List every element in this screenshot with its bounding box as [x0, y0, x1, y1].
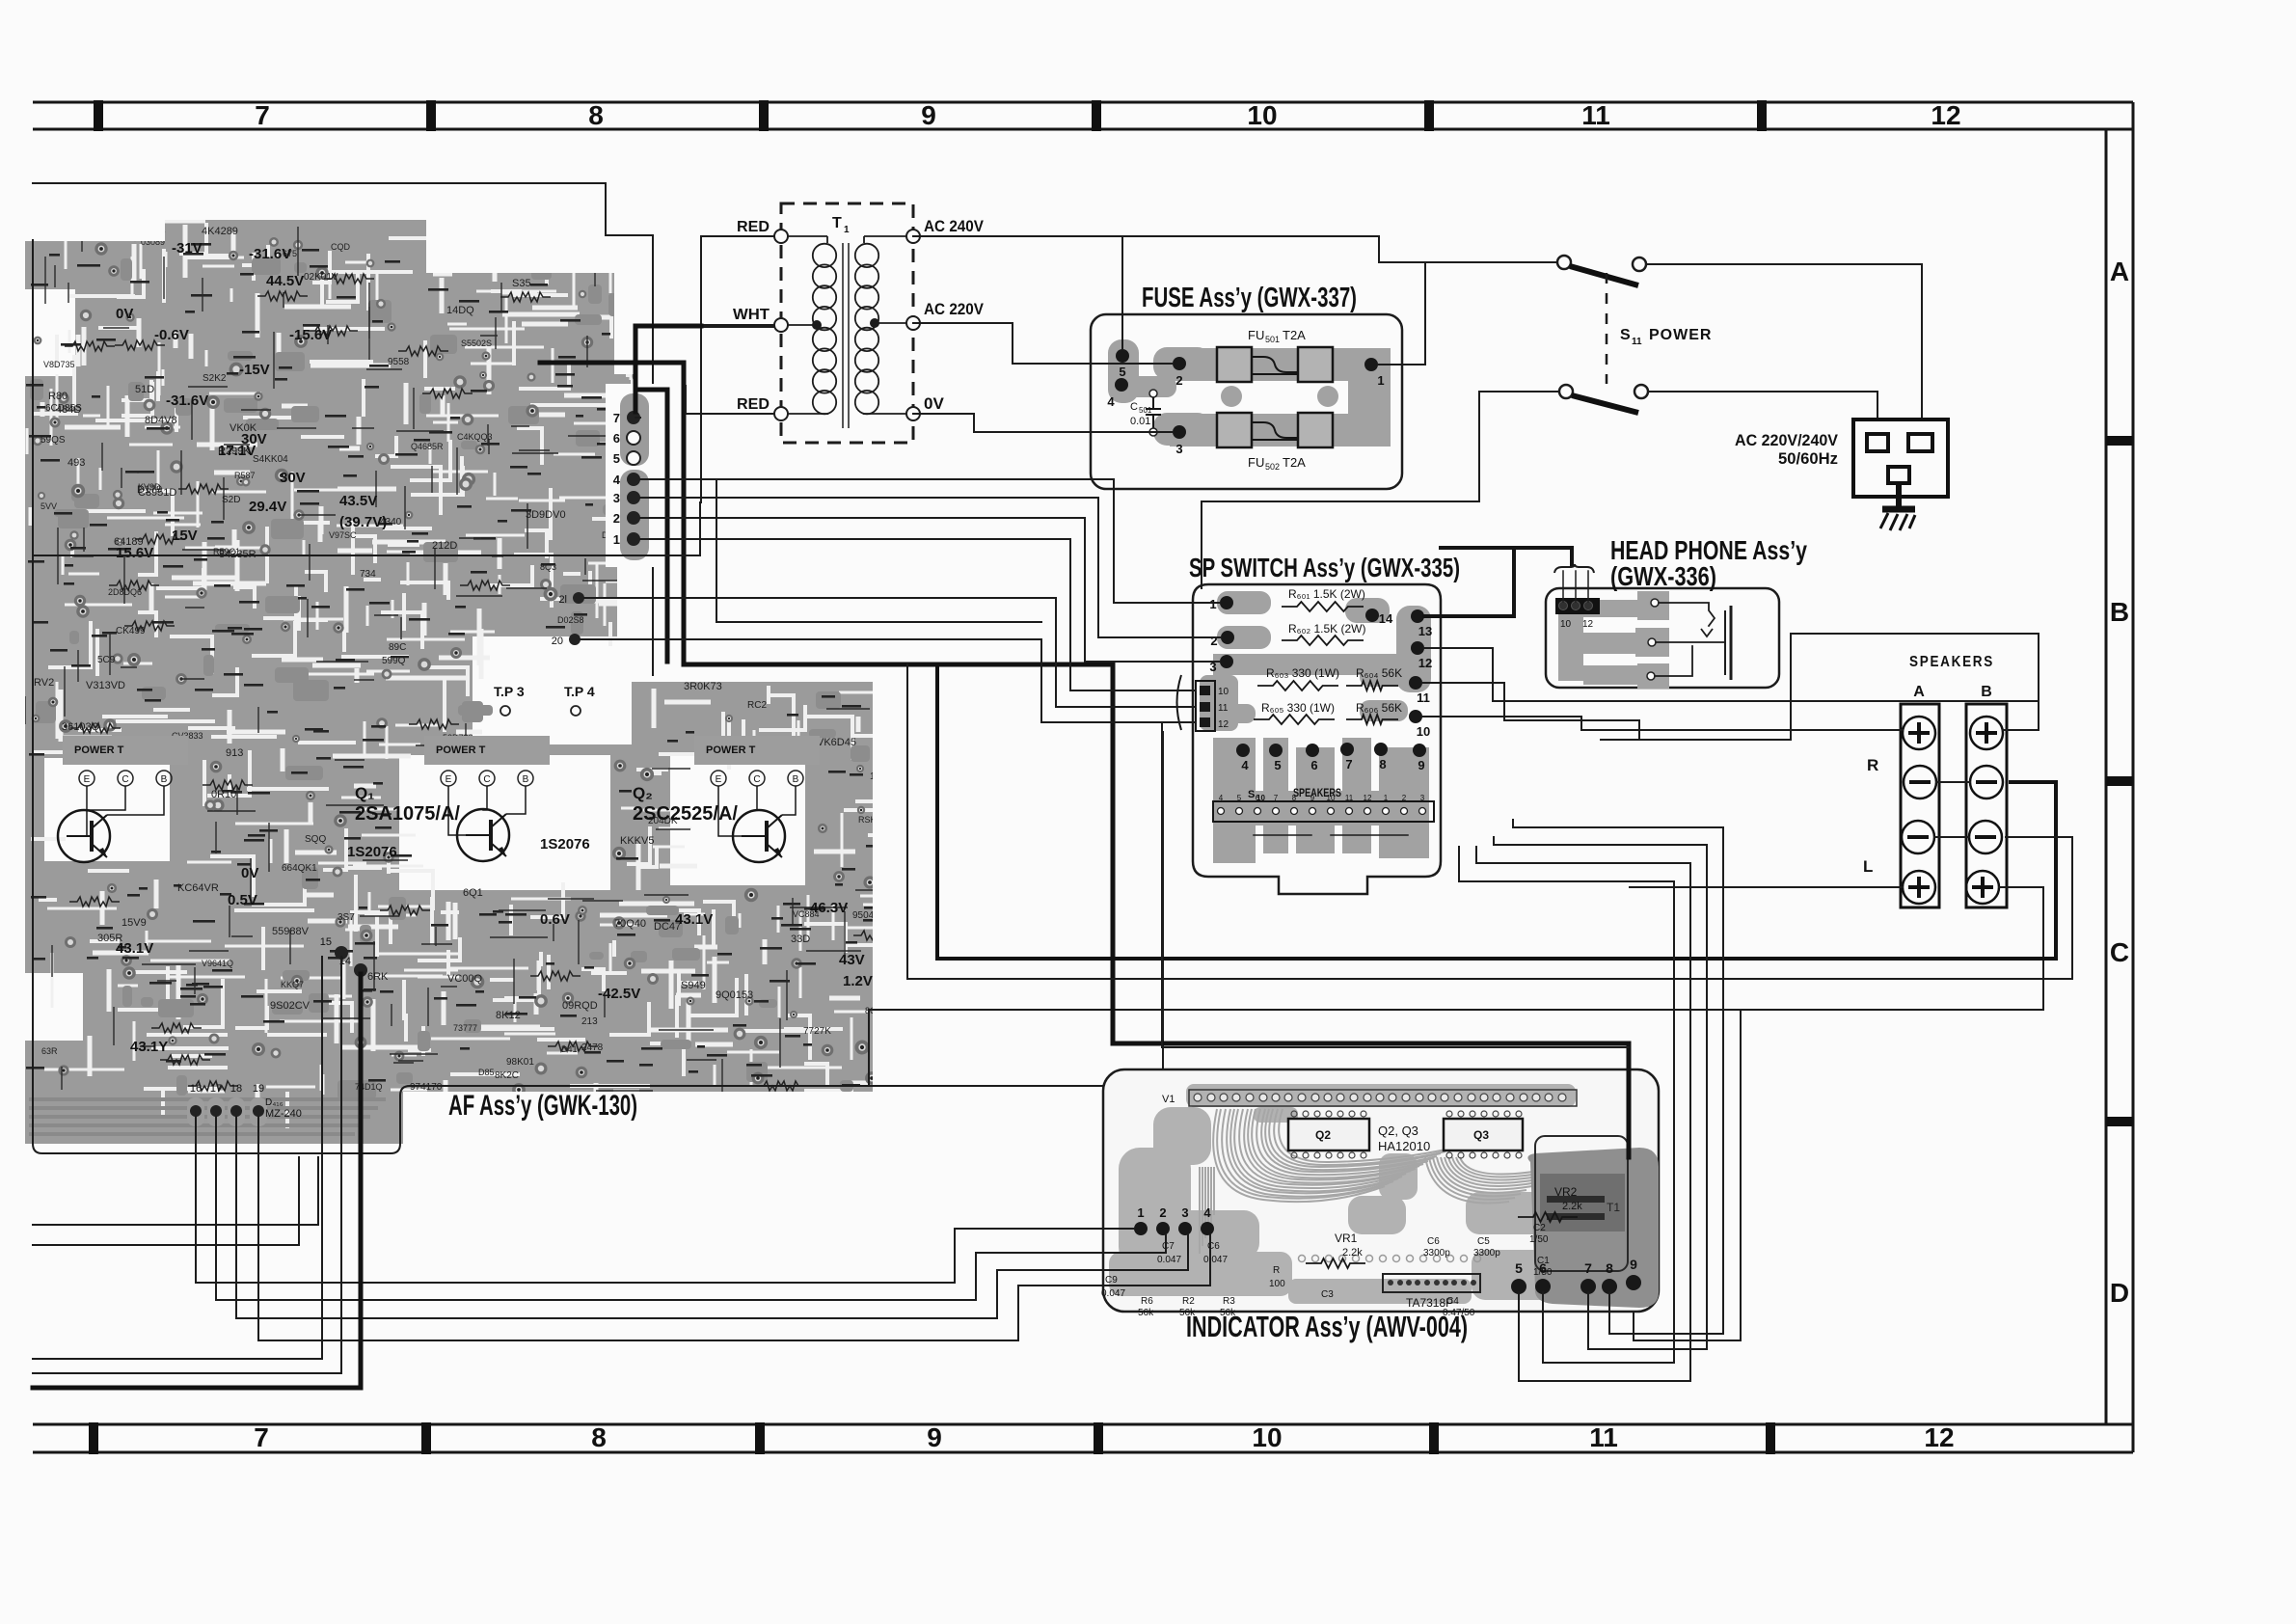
svg-text:-0.6V: -0.6V	[154, 327, 189, 343]
wire RED bottom	[686, 386, 774, 414]
svg-text:43.1V: 43.1V	[675, 911, 713, 928]
wire RED-top to PCB	[701, 326, 774, 328]
svg-text:CQD: CQD	[331, 242, 351, 252]
svg-text:FU: FU	[1248, 328, 1264, 342]
svg-text:6RK: 6RK	[367, 971, 389, 983]
node SP bracket pins 10/11/12	[1177, 675, 1229, 731]
svg-text:T2A: T2A	[1283, 328, 1306, 342]
svg-text:RV2: RV2	[34, 677, 54, 689]
svg-text:2: 2	[613, 511, 620, 526]
svg-text:2: 2	[1175, 373, 1182, 388]
svg-text:59QS: 59QS	[41, 435, 66, 446]
wire pin1 to SP bracket 10	[640, 539, 1196, 690]
resistor R604	[1346, 666, 1402, 690]
svg-text:POWER T: POWER T	[706, 744, 756, 756]
svg-text:7: 7	[254, 1422, 269, 1452]
svg-text:2: 2	[1159, 1205, 1166, 1220]
svg-text:-31V: -31V	[172, 240, 203, 257]
wire WHT thick to pin7	[635, 326, 701, 412]
node fuse pin 3	[1173, 425, 1186, 439]
FUSE assembly box (GWX-337)	[1091, 314, 1402, 489]
svg-text:43.1V: 43.1V	[116, 940, 153, 957]
wire SP to indicator pin5	[1476, 847, 1690, 1381]
svg-text:18: 18	[230, 1083, 242, 1095]
resistor R602	[1282, 622, 1366, 645]
fuse FU501	[1217, 328, 1333, 382]
resistor R601	[1282, 587, 1365, 611]
svg-text:1: 1	[844, 225, 850, 235]
svg-text:599Q: 599Q	[382, 656, 406, 666]
svg-text:6: 6	[1310, 758, 1317, 772]
svg-text:1/50: 1/50	[1529, 1234, 1549, 1245]
wire thick main bus	[540, 363, 1629, 1157]
IC Q3	[1444, 1111, 1523, 1158]
svg-text:R: R	[1867, 756, 1878, 774]
wire speakers top feed B+	[1791, 634, 2039, 730]
svg-text:Q₂: Q₂	[633, 784, 653, 802]
svg-text:3: 3	[613, 491, 620, 505]
svg-text:B: B	[161, 774, 168, 785]
switch S11 POWER lower pole	[1559, 385, 1648, 413]
svg-text:Q3: Q3	[1473, 1128, 1489, 1142]
svg-text:FUSE Ass’y (GWX-337): FUSE Ass’y (GWX-337)	[1142, 283, 1357, 313]
wire thick bottom-left	[33, 974, 361, 1388]
wire down to SP switch	[1201, 501, 1202, 588]
svg-text:C: C	[753, 774, 760, 785]
wire AF18 to indicator pin3	[236, 1117, 1188, 1318]
node fuse pin 4	[1115, 378, 1128, 392]
IC TA7318P	[1383, 1274, 1480, 1310]
wire frame step top-left	[33, 183, 653, 675]
svg-text:C4KQQ3: C4KQQ3	[457, 432, 493, 442]
svg-text:33D: 33D	[791, 934, 810, 945]
node SP switch pins	[1209, 596, 1432, 772]
svg-text:R₆₀₆ 56K: R₆₀₆ 56K	[1356, 701, 1402, 715]
svg-text:63R: 63R	[41, 1046, 58, 1056]
svg-text:2.2k: 2.2k	[1562, 1201, 1582, 1212]
node fuse pin 2	[1173, 357, 1186, 370]
svg-text:V313VD: V313VD	[86, 680, 125, 691]
svg-text:501: 501	[1265, 335, 1280, 344]
wire WHT lead	[701, 324, 774, 326]
wire AF19 to indicator pin4	[258, 1117, 1210, 1340]
svg-text:S949: S949	[681, 980, 706, 991]
svg-text:Q2: Q2	[1315, 1128, 1331, 1142]
svg-text:55988V: 55988V	[272, 926, 310, 937]
svg-text:R587: R587	[234, 471, 256, 480]
svg-text:6Q1: 6Q1	[463, 887, 483, 899]
SP switch PCB traces	[1200, 591, 1431, 863]
wire SP pin12 right	[1424, 648, 2039, 701]
svg-text:C7: C7	[1162, 1241, 1175, 1252]
svg-text:8: 8	[1606, 1260, 1613, 1276]
svg-text:89C: 89C	[389, 642, 406, 653]
svg-text:12: 12	[1418, 656, 1432, 670]
svg-text:43.1Y: 43.1Y	[130, 1039, 168, 1055]
wire 0V to fuse pin3	[913, 414, 1153, 432]
svg-text:6: 6	[1256, 794, 1260, 802]
svg-text:3S7: 3S7	[338, 912, 355, 923]
svg-text:6: 6	[1539, 1260, 1547, 1276]
svg-text:9: 9	[921, 100, 936, 130]
svg-text:S2D: S2D	[222, 495, 240, 505]
svg-text:E: E	[716, 774, 722, 785]
svg-text:2D8DQ6: 2D8DQ6	[108, 587, 142, 597]
svg-text:213: 213	[581, 1016, 598, 1027]
svg-text:V9641Q: V9641Q	[202, 959, 233, 968]
svg-text:8: 8	[588, 100, 604, 130]
wire SP to indicator pin6	[1459, 847, 1674, 1363]
wire into A R+	[1581, 729, 1903, 731]
svg-text:0.47/50: 0.47/50	[1443, 1308, 1475, 1318]
svg-text:2l: 2l	[558, 594, 567, 606]
svg-text:8: 8	[591, 1422, 607, 1452]
svg-text:12: 12	[1931, 100, 1960, 130]
svg-text:3D9DV0: 3D9DV0	[526, 509, 566, 521]
wire bottom-left L3	[33, 957, 322, 1359]
svg-text:R₆₀₂ 1.5K (2W): R₆₀₂ 1.5K (2W)	[1288, 622, 1366, 636]
AC 220V/240V mains plug	[1853, 420, 1948, 497]
svg-text:C: C	[2110, 937, 2129, 967]
terminal speaker B R-	[1970, 766, 2003, 798]
svg-text:11: 11	[1589, 1422, 1618, 1452]
svg-text:98K01: 98K01	[506, 1057, 534, 1068]
resistor VR1 body	[1306, 1259, 1365, 1268]
svg-text:VK6D45: VK6D45	[817, 737, 856, 748]
svg-text:2SA1075/A/: 2SA1075/A/	[355, 803, 460, 825]
svg-text:8Q3: 8Q3	[540, 562, 556, 572]
wire AF17 to indicator pin2	[216, 1117, 1166, 1300]
svg-text:5: 5	[1237, 794, 1242, 802]
svg-text:0.01: 0.01	[1130, 416, 1150, 427]
capacitor C501	[1130, 390, 1161, 436]
svg-text:3300p: 3300p	[1423, 1248, 1450, 1259]
wire B L+ to indicator pin9	[1634, 887, 2043, 1340]
svg-text:16: 16	[190, 1083, 202, 1095]
svg-text:S: S	[1248, 789, 1255, 800]
svg-text:V8D735: V8D735	[43, 360, 75, 369]
terminal speaker B L-	[1969, 821, 2002, 853]
svg-text:6CD85S: 6CD85S	[45, 403, 82, 414]
svg-text:8K12: 8K12	[496, 1010, 521, 1021]
svg-text:493: 493	[68, 457, 85, 469]
node AF connector pins 7..1	[552, 411, 640, 647]
HEAD PHONE assembly box (GWX-336)	[1546, 588, 1779, 688]
svg-text:10: 10	[1560, 619, 1572, 630]
svg-text:4: 4	[1219, 794, 1224, 802]
svg-text:73777: 73777	[453, 1023, 477, 1033]
svg-text:POWER: POWER	[1649, 327, 1712, 343]
node indicator pins 5-9	[1511, 1257, 1641, 1294]
svg-text:KKKV5: KKKV5	[620, 835, 654, 847]
svg-text:0.047: 0.047	[1203, 1255, 1228, 1265]
headphone PCB traces	[1558, 591, 1669, 689]
svg-text:14DQ: 14DQ	[446, 305, 474, 316]
resistor R606	[1346, 701, 1402, 724]
wire to lower pole left	[1479, 391, 1559, 392]
wire lower pole to plug left prong	[1648, 392, 1877, 436]
svg-text:Q2, Q3: Q2, Q3	[1378, 1123, 1418, 1138]
svg-text:B: B	[793, 774, 799, 785]
svg-text:C4: C4	[1446, 1296, 1459, 1307]
svg-text:15V: 15V	[172, 528, 198, 544]
svg-text:-31.6V: -31.6V	[166, 392, 208, 409]
switch S11 POWER upper pole	[1557, 256, 1646, 285]
svg-text:C8951D: C8951D	[138, 487, 176, 499]
svg-text:0V: 0V	[924, 394, 944, 413]
svg-text:VC00Q: VC00Q	[447, 973, 483, 985]
svg-text:0.047: 0.047	[1101, 1288, 1125, 1299]
transistor Q2	[633, 736, 820, 862]
svg-text:AC 220V: AC 220V	[924, 300, 985, 318]
svg-text:V1: V1	[1162, 1094, 1175, 1105]
svg-text:7: 7	[1274, 794, 1279, 802]
svg-text:MZ-240: MZ-240	[265, 1108, 302, 1120]
svg-text:4: 4	[1241, 758, 1249, 772]
svg-text:SPEAKERS: SPEAKERS	[1909, 654, 1994, 670]
fuse FU502	[1217, 413, 1333, 472]
svg-text:S35: S35	[512, 278, 531, 289]
svg-text:A: A	[1913, 684, 1925, 700]
wire SP pin10 right	[1422, 717, 1581, 730]
INDICATOR assembly board (AWV-004)	[1103, 1069, 1659, 1312]
terminal speaker B L+	[1966, 871, 1999, 904]
svg-text:0.6V: 0.6V	[540, 911, 570, 928]
wire pin3 to SP pin2	[640, 498, 1221, 637]
svg-text:R3: R3	[1223, 1296, 1235, 1307]
svg-text:R₆₀₄ 56K: R₆₀₄ 56K	[1356, 666, 1402, 680]
svg-text:AC 220V/240V: AC 220V/240V	[1735, 431, 1839, 449]
terminal speaker A L-	[1902, 821, 1934, 853]
svg-text:RED: RED	[737, 219, 770, 235]
wire hp pin a	[1562, 571, 1564, 602]
svg-text:51D: 51D	[135, 384, 154, 395]
svg-text:B: B	[1981, 684, 1992, 700]
terminal speaker A R+	[1903, 717, 1935, 749]
svg-text:11: 11	[1632, 337, 1642, 347]
svg-text:56k: 56k	[1179, 1308, 1196, 1318]
svg-text:12: 12	[1924, 1422, 1954, 1452]
svg-text:12: 12	[1582, 619, 1594, 630]
ground symbol	[1880, 483, 1915, 530]
svg-text:734: 734	[360, 569, 376, 580]
wire lower pole to SP switch feed	[1202, 392, 1479, 501]
wire vertical x727	[700, 327, 702, 502]
svg-text:-31.6V: -31.6V	[249, 246, 291, 262]
wire x726 down-left	[33, 502, 700, 555]
svg-text:15: 15	[320, 936, 332, 948]
svg-text:8: 8	[1379, 757, 1386, 771]
svg-text:501: 501	[1139, 406, 1152, 415]
svg-text:5: 5	[1515, 1260, 1523, 1276]
terminal speaker B R+	[1970, 717, 2003, 749]
svg-text:R2: R2	[1182, 1296, 1195, 1307]
wire C501 to pin3	[1153, 431, 1173, 433]
wire hp pin c	[1587, 571, 1589, 602]
svg-text:212D: 212D	[432, 540, 457, 552]
svg-text:R₆₀₁ 1.5K (2W): R₆₀₁ 1.5K (2W)	[1288, 587, 1365, 601]
svg-text:9S02CV: 9S02CV	[270, 1000, 311, 1012]
svg-text:5VV: 5VV	[41, 501, 57, 511]
wire headphone feed	[1441, 548, 1572, 564]
svg-text:D02S8: D02S8	[557, 615, 584, 625]
svg-text:0.5V: 0.5V	[228, 892, 257, 908]
svg-text:Q₁: Q₁	[355, 784, 374, 802]
svg-text:T: T	[832, 215, 842, 231]
svg-text:46.3V: 46.3V	[810, 900, 848, 916]
svg-text:913: 913	[226, 747, 243, 759]
svg-text:S5502S: S5502S	[461, 338, 492, 348]
svg-text:4: 4	[613, 473, 621, 487]
svg-text:10: 10	[1252, 1422, 1282, 1452]
svg-text:3: 3	[1420, 794, 1425, 802]
svg-text:(GWX-336): (GWX-336)	[1610, 561, 1716, 591]
svg-text:15.6V: 15.6V	[116, 545, 153, 561]
wire left stub a	[33, 1157, 318, 1225]
svg-text:2SC2525/A/: 2SC2525/A/	[633, 803, 738, 825]
svg-text:RC2: RC2	[747, 700, 767, 711]
IC Q2	[1288, 1111, 1369, 1158]
svg-text:43V: 43V	[839, 952, 865, 968]
wire stub	[685, 386, 687, 414]
SP SWITCH assembly box (GWX-335)	[1193, 584, 1441, 894]
svg-text:29.4V: 29.4V	[249, 499, 286, 515]
svg-text:10: 10	[1218, 687, 1229, 697]
speaker terminal strip B	[1966, 704, 2007, 907]
wire left stub b	[33, 1157, 299, 1245]
svg-text:8D4V8: 8D4V8	[145, 415, 177, 426]
svg-text:C3: C3	[1321, 1289, 1334, 1300]
svg-text:Q4685R: Q4685R	[411, 442, 444, 451]
svg-text:0V: 0V	[241, 865, 258, 881]
svg-text:VR2: VR2	[1554, 1185, 1578, 1199]
svg-text:-15.6V: -15.6V	[289, 327, 332, 343]
svg-text:1: 1	[1209, 597, 1216, 611]
svg-text:20: 20	[552, 636, 563, 647]
svg-text:17.1V: 17.1V	[218, 443, 256, 459]
svg-text:1.2V: 1.2V	[843, 973, 873, 989]
svg-text:-15V: -15V	[239, 362, 270, 378]
svg-text:43.5V: 43.5V	[339, 493, 377, 509]
svg-text:9: 9	[1418, 758, 1424, 772]
wire SP pin13 to headphone (thick)	[1424, 548, 1514, 616]
svg-text:D₄₁₆: D₄₁₆	[265, 1097, 284, 1108]
svg-text:1: 1	[613, 532, 620, 547]
svg-text:C: C	[483, 774, 490, 785]
svg-text:974170: 974170	[410, 1082, 443, 1093]
svg-text:3: 3	[1175, 442, 1182, 456]
svg-text:56k: 56k	[1220, 1308, 1236, 1318]
svg-text:C: C	[1130, 401, 1138, 413]
wire switch to plug right prong	[1646, 264, 1922, 436]
wire long horizontal 1047	[869, 1009, 1741, 1011]
svg-text:1: 1	[1137, 1205, 1144, 1220]
wire bracket drop	[1162, 722, 1629, 1047]
wire pin4 stub	[640, 478, 716, 480]
AF connector pad column	[606, 384, 660, 567]
wire speakers left drop	[1601, 634, 1791, 740]
terminal speaker A L+	[1903, 871, 1935, 904]
wire pin20 to SP bracket 12	[581, 639, 1196, 722]
svg-text:B: B	[523, 774, 529, 785]
node indicator pins 1-4	[1134, 1205, 1214, 1235]
svg-text:R₆₀₃ 330 (1W): R₆₀₃ 330 (1W)	[1266, 666, 1339, 680]
svg-text:A: A	[2110, 257, 2129, 286]
resistor R605	[1254, 701, 1335, 724]
svg-text:5: 5	[613, 451, 620, 466]
svg-text:S2K2: S2K2	[203, 373, 227, 384]
resistor VR2 body	[1518, 1212, 1578, 1222]
svg-text:V97SC: V97SC	[329, 530, 357, 540]
svg-text:HA12010: HA12010	[1378, 1139, 1430, 1153]
svg-text:WHT: WHT	[733, 307, 770, 323]
svg-text:SQQ: SQQ	[305, 834, 326, 845]
svg-text:POWER T: POWER T	[74, 744, 124, 756]
wire thick to speaker R- row	[937, 664, 2056, 959]
node V1 pin row	[1162, 1090, 1577, 1106]
svg-text:2: 2	[1402, 794, 1407, 802]
wire S10 link b	[1331, 834, 1408, 836]
svg-text:10: 10	[1247, 100, 1277, 130]
svg-text:7: 7	[1345, 757, 1352, 771]
svg-text:E: E	[84, 774, 91, 785]
terminal speaker A R-	[1904, 766, 1936, 798]
wire link R- row	[1936, 781, 1970, 783]
svg-text:(39.7V): (39.7V)	[339, 514, 387, 530]
svg-text:11: 11	[1218, 703, 1229, 714]
svg-text:AF Ass’y (GWK-130): AF Ass’y (GWK-130)	[448, 1090, 637, 1122]
svg-text:09RQD: 09RQD	[562, 1000, 598, 1012]
indicator transformer T1 shield	[1527, 1136, 1659, 1308]
svg-text:56k: 56k	[1138, 1308, 1154, 1318]
svg-text:11: 11	[1345, 794, 1354, 802]
svg-text:3300p: 3300p	[1473, 1248, 1500, 1259]
svg-text:SP SWITCH Ass’y (GWX-335): SP SWITCH Ass’y (GWX-335)	[1189, 553, 1460, 582]
svg-text:1S2076: 1S2076	[347, 844, 397, 860]
svg-text:8K2C: 8K2C	[495, 1070, 519, 1081]
capacitors and resistors small labels	[1101, 1223, 1553, 1318]
svg-text:AC 240V: AC 240V	[924, 217, 985, 235]
svg-text:R80: R80	[48, 391, 68, 402]
svg-text:17: 17	[210, 1083, 222, 1095]
svg-text:0V: 0V	[116, 306, 133, 322]
svg-text:7: 7	[613, 411, 620, 425]
svg-text:12: 12	[1364, 794, 1372, 802]
switch S10 SPEAKERS row	[1213, 786, 1434, 822]
svg-text:9: 9	[927, 1422, 942, 1452]
svg-text:11: 11	[1417, 690, 1430, 705]
svg-text:9504: 9504	[852, 910, 875, 921]
svg-text:10: 10	[1327, 794, 1336, 802]
wire SP pin11 right	[1422, 683, 1639, 740]
wire SP to indicator pin7	[1494, 837, 1707, 1349]
svg-text:T2A: T2A	[1283, 455, 1306, 470]
resistor R603	[1257, 666, 1339, 690]
svg-text:5C9: 5C9	[97, 655, 116, 665]
voltage annotations on AF board	[116, 240, 873, 1055]
transistor output device left channel	[58, 736, 188, 862]
svg-text:C9: C9	[1105, 1275, 1118, 1286]
headphone jack	[1647, 599, 1731, 680]
wire x743	[716, 479, 1041, 622]
svg-text:7: 7	[1584, 1260, 1592, 1276]
svg-text:C6: C6	[1427, 1236, 1440, 1247]
wire pin2 to SP pin3	[640, 518, 1220, 662]
svg-text:7727K: 7727K	[803, 1026, 831, 1037]
svg-text:15V9: 15V9	[122, 917, 147, 929]
svg-text:1S2076: 1S2076	[540, 836, 590, 853]
stub pin7	[635, 417, 640, 419]
